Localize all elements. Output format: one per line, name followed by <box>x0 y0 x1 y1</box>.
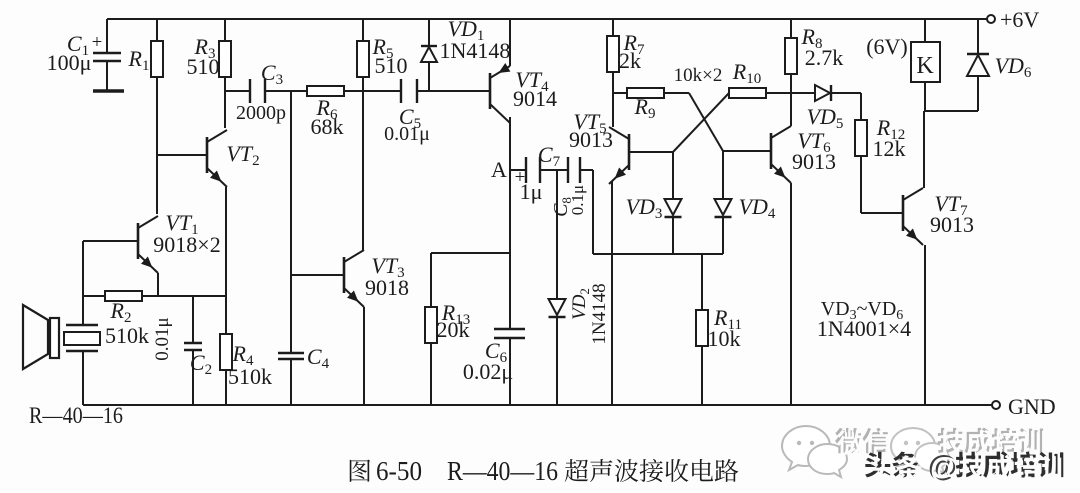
svg-text:R2: R2 <box>110 298 132 326</box>
svg-text:C4: C4 <box>307 344 330 372</box>
svg-text:0.02μ: 0.02μ <box>463 359 513 384</box>
wire VT6 collector <box>790 93 792 126</box>
svg-text:2000p: 2000p <box>236 102 286 124</box>
resistor R10 <box>729 88 766 98</box>
capacitor C3 <box>249 79 251 103</box>
svg-text:+6V: +6V <box>1000 7 1039 32</box>
capacitor C1 <box>106 19 108 53</box>
svg-text:0.01μ: 0.01μ <box>384 123 430 145</box>
wire R5 to VT3 collector <box>362 91 364 251</box>
resistor R6 <box>307 86 344 96</box>
transistor VT5 <box>628 134 631 170</box>
capacitor C6 <box>494 328 525 330</box>
relay K <box>924 19 926 42</box>
transistor VT2 <box>206 137 209 173</box>
wire top +6V rail <box>107 18 987 20</box>
wire node A to R13 <box>431 252 510 254</box>
wire VT6 emitter down <box>790 183 792 405</box>
wire VT1 emitter <box>157 273 159 296</box>
svg-text:510k: 510k <box>228 364 272 389</box>
svg-text:R1: R1 <box>128 46 150 74</box>
svg-text:2.7k: 2.7k <box>805 45 844 70</box>
wire C7 to C8 <box>540 169 568 171</box>
resistor R7 <box>612 19 614 36</box>
svg-text:1N4148: 1N4148 <box>440 38 511 63</box>
wire C3 to R6/R5 node <box>265 90 401 92</box>
wire VT5 emitter down <box>611 181 613 405</box>
watermark ghost text jicheng peixun <box>938 428 964 453</box>
wire VT1 base <box>83 240 138 242</box>
svg-text:C3: C3 <box>261 60 283 88</box>
resistor R11 <box>701 254 703 310</box>
diode VD4 <box>722 151 724 199</box>
transistor VT4 <box>489 73 492 109</box>
svg-text:A: A <box>491 157 507 182</box>
diode VD3 <box>672 152 674 199</box>
svg-text:9018: 9018 <box>365 275 409 300</box>
resistor R13 <box>430 253 432 307</box>
wire R12 to VT7 base <box>861 212 903 214</box>
svg-text:R—40—16: R—40—16 <box>29 403 123 428</box>
svg-text:0.01μ: 0.01μ <box>152 317 173 360</box>
svg-text:12k: 12k <box>873 136 906 161</box>
wire R7 node to R9 <box>613 92 627 94</box>
watermark headline jicheng peixun embossed <box>956 452 982 478</box>
wire node A to C7 <box>510 169 526 171</box>
resistor R1 <box>156 19 158 41</box>
capacitor C8 <box>567 157 569 183</box>
svg-text:GND: GND <box>1008 394 1056 419</box>
resistor R5 <box>362 19 364 41</box>
wire VT2 emitter / R4 branch <box>225 187 227 334</box>
svg-text:VD4: VD4 <box>739 194 776 222</box>
ultrasonic transducer R-40-16 <box>82 296 84 326</box>
wire R3 to VT2 collector <box>224 77 226 128</box>
capacitor C5 <box>400 79 402 103</box>
wire C8 to trigger bus <box>580 169 593 171</box>
svg-text:R—40—16: R—40—16 <box>447 456 558 486</box>
watermark headline toutiao embossed <box>865 452 890 478</box>
capacitor C2 <box>192 296 194 343</box>
svg-text:2k: 2k <box>619 48 641 73</box>
wire VT7 collector <box>923 111 925 188</box>
wire K bottom to VD6 <box>925 110 978 112</box>
terminal +6V <box>987 15 995 23</box>
svg-text:9013: 9013 <box>569 127 613 152</box>
svg-text:VD6: VD6 <box>995 53 1032 81</box>
wire cross diagonal R9 to VT6 base <box>689 93 723 151</box>
resistor R2 <box>83 295 226 297</box>
svg-text:6-50: 6-50 <box>376 456 422 486</box>
svg-text:1N4148: 1N4148 <box>589 283 610 344</box>
capacitor C7 <box>525 157 527 183</box>
transistor VT7 <box>902 195 905 231</box>
wire R9 to cross coupling <box>663 92 689 94</box>
wire down to C4/VT3 base <box>290 91 292 353</box>
wire VT4 emitter to rail <box>509 19 511 66</box>
wire VT7 emitter <box>924 245 926 405</box>
wire VT2 base <box>157 154 207 156</box>
ground bar below C1 <box>93 89 124 93</box>
diode VD1 <box>428 19 430 46</box>
caption figure 6-50 title <box>350 459 371 481</box>
svg-text:1N4001×4: 1N4001×4 <box>817 316 911 341</box>
svg-text:10k×2: 10k×2 <box>674 65 723 86</box>
svg-text:(6V): (6V) <box>866 34 908 59</box>
svg-text:9018×2: 9018×2 <box>153 232 220 257</box>
watermark wechat ghost logo 2 <box>891 428 949 473</box>
svg-text:9013: 9013 <box>930 212 974 237</box>
svg-text:0.1μ: 0.1μ <box>568 185 587 215</box>
svg-text:10k: 10k <box>708 326 741 351</box>
transistor VT1 <box>137 223 140 259</box>
svg-text:VD5: VD5 <box>807 104 844 132</box>
svg-text:9013: 9013 <box>792 149 836 174</box>
svg-text:9014: 9014 <box>513 86 557 111</box>
svg-text:@: @ <box>930 452 959 485</box>
speaker cone of transducer <box>50 318 59 358</box>
svg-text:VT2: VT2 <box>226 141 259 169</box>
watermark ghost text weixin <box>835 428 861 453</box>
wire node to C3 <box>225 90 250 92</box>
watermark wechat ghost logo 1 <box>782 426 847 477</box>
svg-text:510: 510 <box>187 54 220 79</box>
transistor VT6 <box>770 133 773 169</box>
capacitor C4 <box>278 352 304 354</box>
svg-text:K: K <box>916 53 934 79</box>
resistor R9 <box>627 88 664 98</box>
diode VD6 <box>977 19 979 54</box>
wire VT3 emitter <box>363 307 365 405</box>
svg-text:+: + <box>92 32 103 53</box>
wire bottom GND rail <box>83 404 992 406</box>
resistor R12 <box>860 93 862 120</box>
wire R10 to VT6 collector node <box>765 92 791 94</box>
resistor R8 <box>790 19 792 38</box>
svg-text:R10: R10 <box>732 59 761 87</box>
wire VT4 collector / node A line <box>509 117 511 329</box>
resistor R3 <box>224 19 226 41</box>
terminal GND <box>992 401 1000 409</box>
wire C5 to VT4 base <box>417 90 490 92</box>
resistor R4 <box>220 334 232 370</box>
svg-text:510k: 510k <box>105 323 149 348</box>
wire VT5 collector <box>612 93 614 127</box>
svg-text:C7: C7 <box>538 142 561 170</box>
svg-text:VD3: VD3 <box>626 194 663 222</box>
transistor VT3 <box>343 257 346 293</box>
svg-text:C2: C2 <box>190 350 212 378</box>
wire VT6 base <box>723 150 771 152</box>
svg-text:68k: 68k <box>311 114 344 139</box>
diode VD2 <box>556 170 558 299</box>
svg-text:100μ: 100μ <box>47 50 92 75</box>
svg-text:1μ: 1μ <box>520 179 543 204</box>
diode VD5 <box>791 92 815 94</box>
svg-text:20k: 20k <box>437 317 470 342</box>
wire cross diagonal R10 to VT5 base <box>673 93 729 152</box>
svg-text:510: 510 <box>375 53 408 78</box>
wire VT5 base <box>629 151 673 153</box>
